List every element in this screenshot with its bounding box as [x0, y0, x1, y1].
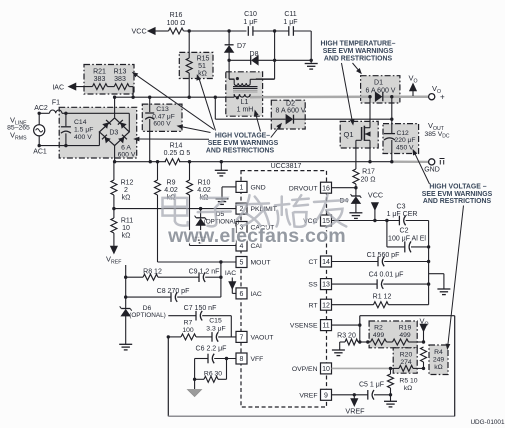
svg-text:AC2: AC2	[34, 105, 48, 112]
svg-text:VAOUT: VAOUT	[251, 335, 274, 342]
svg-text:6: 6	[240, 291, 244, 298]
svg-text:8 A 600 V: 8 A 600 V	[276, 108, 306, 115]
svg-text:5: 5	[240, 260, 244, 267]
svg-text:R15: R15	[197, 56, 210, 63]
svg-text:GND: GND	[251, 185, 266, 192]
svg-text:10: 10	[322, 366, 330, 373]
svg-text:7: 7	[240, 335, 244, 342]
svg-text:C2: C2	[400, 228, 409, 235]
svg-text:100: 100	[182, 327, 194, 334]
svg-text:14: 14	[322, 259, 330, 266]
svg-text:R11: R11	[121, 218, 133, 225]
svg-text:C15: C15	[209, 318, 222, 325]
svg-text:R10: R10	[198, 180, 211, 187]
svg-text:SS: SS	[308, 282, 318, 289]
svg-text:R5 10: R5 10	[399, 378, 417, 385]
svg-text:R17: R17	[362, 169, 375, 176]
svg-text:8: 8	[240, 356, 244, 363]
svg-text:D7: D7	[237, 43, 246, 50]
svg-text:kΩ: kΩ	[122, 195, 131, 202]
svg-text:383: 383	[94, 76, 106, 83]
svg-text:1 μF: 1 μF	[283, 19, 297, 26]
svg-text:499: 499	[373, 332, 385, 339]
svg-text:6 A 600 V: 6 A 600 V	[366, 87, 396, 94]
svg-text:2: 2	[124, 187, 128, 194]
svg-text:kΩ: kΩ	[434, 364, 442, 371]
svg-text:OVP/EN: OVP/EN	[292, 366, 318, 373]
svg-text:R1 12: R1 12	[373, 294, 392, 301]
svg-text:R20: R20	[400, 352, 413, 359]
svg-text:VCC: VCC	[368, 191, 383, 200]
svg-text:0.25 Ω 5: 0.25 Ω 5	[164, 150, 191, 157]
svg-text:R9: R9	[167, 180, 176, 187]
svg-text:C13: C13	[156, 106, 169, 113]
svg-text:1 μF: 1 μF	[243, 19, 257, 26]
svg-text:kΩ: kΩ	[404, 385, 412, 392]
svg-text:L1: L1	[241, 99, 249, 106]
svg-text:100 μF Al El: 100 μF Al El	[388, 236, 426, 243]
svg-text:Q1: Q1	[343, 130, 353, 139]
svg-text:AND RESTRICTIONS: AND RESTRICTIONS	[324, 56, 393, 63]
svg-text:HIGH VOLTAGE –: HIGH VOLTAGE –	[429, 183, 486, 190]
svg-text:www.elecfans.com: www.elecfans.com	[167, 225, 346, 247]
svg-text:SEE EVM WARNINGS: SEE EVM WARNINGS	[208, 140, 279, 147]
svg-text:20 Ω: 20 Ω	[361, 177, 376, 184]
svg-text:CT: CT	[308, 259, 317, 266]
svg-text:51: 51	[198, 63, 206, 70]
svg-text:1 mH: 1 mH	[237, 107, 254, 114]
svg-text:R3 20: R3 20	[337, 333, 356, 340]
svg-text:kΩ: kΩ	[198, 71, 207, 78]
svg-text:C7 150 nF: C7 150 nF	[184, 305, 217, 312]
svg-text:R6 30: R6 30	[204, 371, 222, 378]
svg-text:SEE EVM WARNINGS: SEE EVM WARNINGS	[323, 48, 394, 55]
svg-text:F1: F1	[52, 100, 60, 107]
svg-text:6 A: 6 A	[121, 145, 131, 152]
svg-text:100 Ω: 100 Ω	[167, 20, 186, 27]
svg-text:IAC: IAC	[225, 270, 236, 277]
svg-text:C14: C14	[74, 119, 87, 126]
svg-text:D6: D6	[143, 305, 152, 312]
svg-text:C6 2.2 μF: C6 2.2 μF	[196, 346, 227, 353]
svg-text:RT: RT	[309, 302, 318, 309]
svg-text:274: 274	[400, 359, 412, 366]
svg-text:D3: D3	[109, 129, 118, 136]
svg-text:4.02: 4.02	[197, 187, 211, 194]
svg-text:1: 1	[240, 185, 244, 192]
svg-text:249: 249	[433, 357, 445, 364]
svg-text:R21: R21	[93, 69, 106, 76]
svg-text:D8: D8	[250, 51, 259, 58]
svg-text:13: 13	[322, 282, 330, 289]
svg-text:R4: R4	[434, 349, 443, 356]
svg-text:3.3 μF: 3.3 μF	[206, 326, 225, 333]
svg-text:VCC: VCC	[132, 26, 147, 35]
svg-text:MOUT: MOUT	[251, 260, 271, 267]
svg-text:D1: D1	[374, 79, 383, 86]
svg-text:C3: C3	[397, 204, 406, 211]
svg-text:VREF: VREF	[299, 392, 317, 399]
svg-text:4.02: 4.02	[164, 187, 178, 194]
svg-text:AND RESTRICTIONS: AND RESTRICTIONS	[423, 198, 492, 205]
svg-text:0.47 μF: 0.47 μF	[152, 113, 175, 120]
svg-text:AND RESTRICTIONS: AND RESTRICTIONS	[206, 147, 275, 154]
svg-text:C1 560 pF: C1 560 pF	[367, 252, 400, 259]
svg-text:R19: R19	[399, 325, 412, 332]
svg-text:12: 12	[322, 302, 330, 309]
svg-text:SEE EVM WARNINGS: SEE EVM WARNINGS	[422, 191, 493, 198]
svg-text:400 V: 400 V	[74, 134, 92, 141]
svg-text:16: 16	[322, 185, 330, 192]
svg-text:UDG-01001: UDG-01001	[470, 419, 505, 426]
svg-text:C5 1 μF: C5 1 μF	[359, 382, 384, 389]
svg-text:C11: C11	[284, 11, 296, 18]
svg-text:kΩ: kΩ	[122, 233, 131, 240]
svg-text:C8 270 pF: C8 270 pF	[157, 288, 190, 295]
svg-text:220 μF: 220 μF	[395, 137, 416, 144]
svg-text:9: 9	[324, 392, 328, 399]
svg-text:GND: GND	[424, 167, 440, 174]
svg-text:10: 10	[122, 225, 130, 232]
svg-text:C10: C10	[244, 11, 257, 18]
svg-text:(OPTIONAL): (OPTIONAL)	[129, 312, 166, 319]
svg-text:VFF: VFF	[251, 356, 264, 363]
svg-text:IAC: IAC	[251, 291, 262, 298]
svg-text:499: 499	[399, 332, 411, 339]
svg-text:600 V: 600 V	[153, 121, 171, 128]
svg-text:C9 1.2 nF: C9 1.2 nF	[189, 269, 220, 276]
svg-text:600 V: 600 V	[118, 152, 136, 159]
svg-text:450 V: 450 V	[396, 144, 414, 151]
svg-text:R14: R14	[170, 143, 183, 150]
svg-text:VSENSE: VSENSE	[290, 323, 318, 330]
svg-text:R8 12: R8 12	[143, 269, 162, 276]
svg-text:C4 0.01 μF: C4 0.01 μF	[369, 272, 404, 279]
svg-text:R12: R12	[121, 180, 134, 187]
svg-text:1.5 μF: 1.5 μF	[74, 127, 93, 134]
svg-text:R13: R13	[114, 69, 127, 76]
svg-text:IAC: IAC	[52, 85, 64, 92]
svg-text:R2: R2	[374, 325, 383, 332]
svg-text:HIGH TEMPERATURE–: HIGH TEMPERATURE–	[321, 41, 396, 48]
svg-text:UCC3817: UCC3817	[271, 163, 302, 170]
svg-text:VREF: VREF	[345, 407, 365, 416]
svg-text:11: 11	[322, 323, 329, 330]
svg-text:C12: C12	[397, 130, 410, 137]
svg-text:383: 383	[114, 76, 126, 83]
svg-text:R7: R7	[184, 320, 193, 327]
svg-text:1 μF CER: 1 μF CER	[387, 211, 418, 218]
svg-text:R16: R16	[170, 12, 183, 19]
svg-text:AC1: AC1	[33, 149, 47, 156]
svg-text:HIGH VOLTAGE–: HIGH VOLTAGE–	[215, 132, 270, 139]
svg-text:DRVOUT: DRVOUT	[289, 185, 318, 192]
svg-text:+: +	[440, 92, 445, 101]
